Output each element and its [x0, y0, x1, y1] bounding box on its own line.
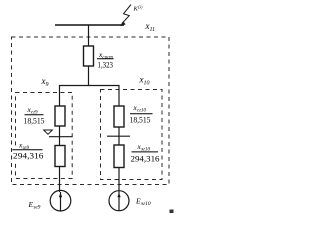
resistor left lower [55, 146, 65, 167]
left node tick [49, 136, 72, 138]
svg-text:294,316: 294,316 [131, 154, 160, 164]
inner dashed box X9 [16, 93, 73, 179]
resistor left upper [55, 106, 65, 126]
svg-text:18,515: 18,515 [130, 115, 151, 125]
label x_sys / 1,323 [97, 50, 114, 70]
wire x_sys to tee [88, 66, 90, 86]
wire between left resistors [59, 126, 61, 146]
generator circle right [109, 191, 129, 211]
resistor right upper [114, 106, 124, 127]
svg-text:294,316: 294,316 [13, 151, 44, 161]
generator circle left [50, 190, 71, 211]
svg-text:xсг9: xсг9 [27, 105, 39, 116]
svg-text:18,515: 18,515 [24, 116, 45, 126]
right node tick [107, 135, 130, 137]
label right lower fraction 294,316 [131, 142, 160, 164]
label right upper fraction 18,515 [130, 103, 153, 125]
lightning arrowhead [120, 21, 125, 26]
svg-text:xсг10: xсг10 [133, 103, 147, 114]
svg-text:K(3): K(3) [133, 4, 144, 12]
emf arrow left [60, 192, 62, 211]
right wire to generator [118, 168, 120, 193]
left branch wire down [59, 85, 61, 107]
right branch wire down [118, 85, 120, 107]
inner dashed box X10 [101, 90, 163, 180]
bus bar [55, 24, 124, 26]
svg-text:Eэг10: Eэг10 [135, 197, 151, 208]
emf arrow right [118, 192, 120, 211]
svg-text:x11: x11 [145, 21, 156, 33]
label left upper fraction 18,515 [24, 105, 45, 126]
svg-text:xэг10: xэг10 [137, 142, 151, 153]
svg-text:1,323: 1,323 [98, 60, 114, 70]
resistor x_sys [84, 46, 94, 66]
svg-text:Eэг9: Eэг9 [28, 200, 41, 211]
svg-text:x10: x10 [139, 75, 150, 87]
wire bus to system reactance [88, 25, 90, 46]
corner artifact dot [170, 210, 174, 214]
wire between right resistors [118, 127, 120, 145]
tee wire joining branches [60, 85, 120, 87]
label left lower fraction 294,316 [12, 141, 44, 161]
small open triangle marker [44, 130, 53, 134]
outer dashed box X11 [12, 37, 170, 185]
resistor right lower [114, 145, 124, 168]
left wire to generator [59, 167, 61, 193]
short-circuit lightning arrow K(3) [122, 5, 131, 24]
svg-text:x9: x9 [41, 76, 49, 88]
